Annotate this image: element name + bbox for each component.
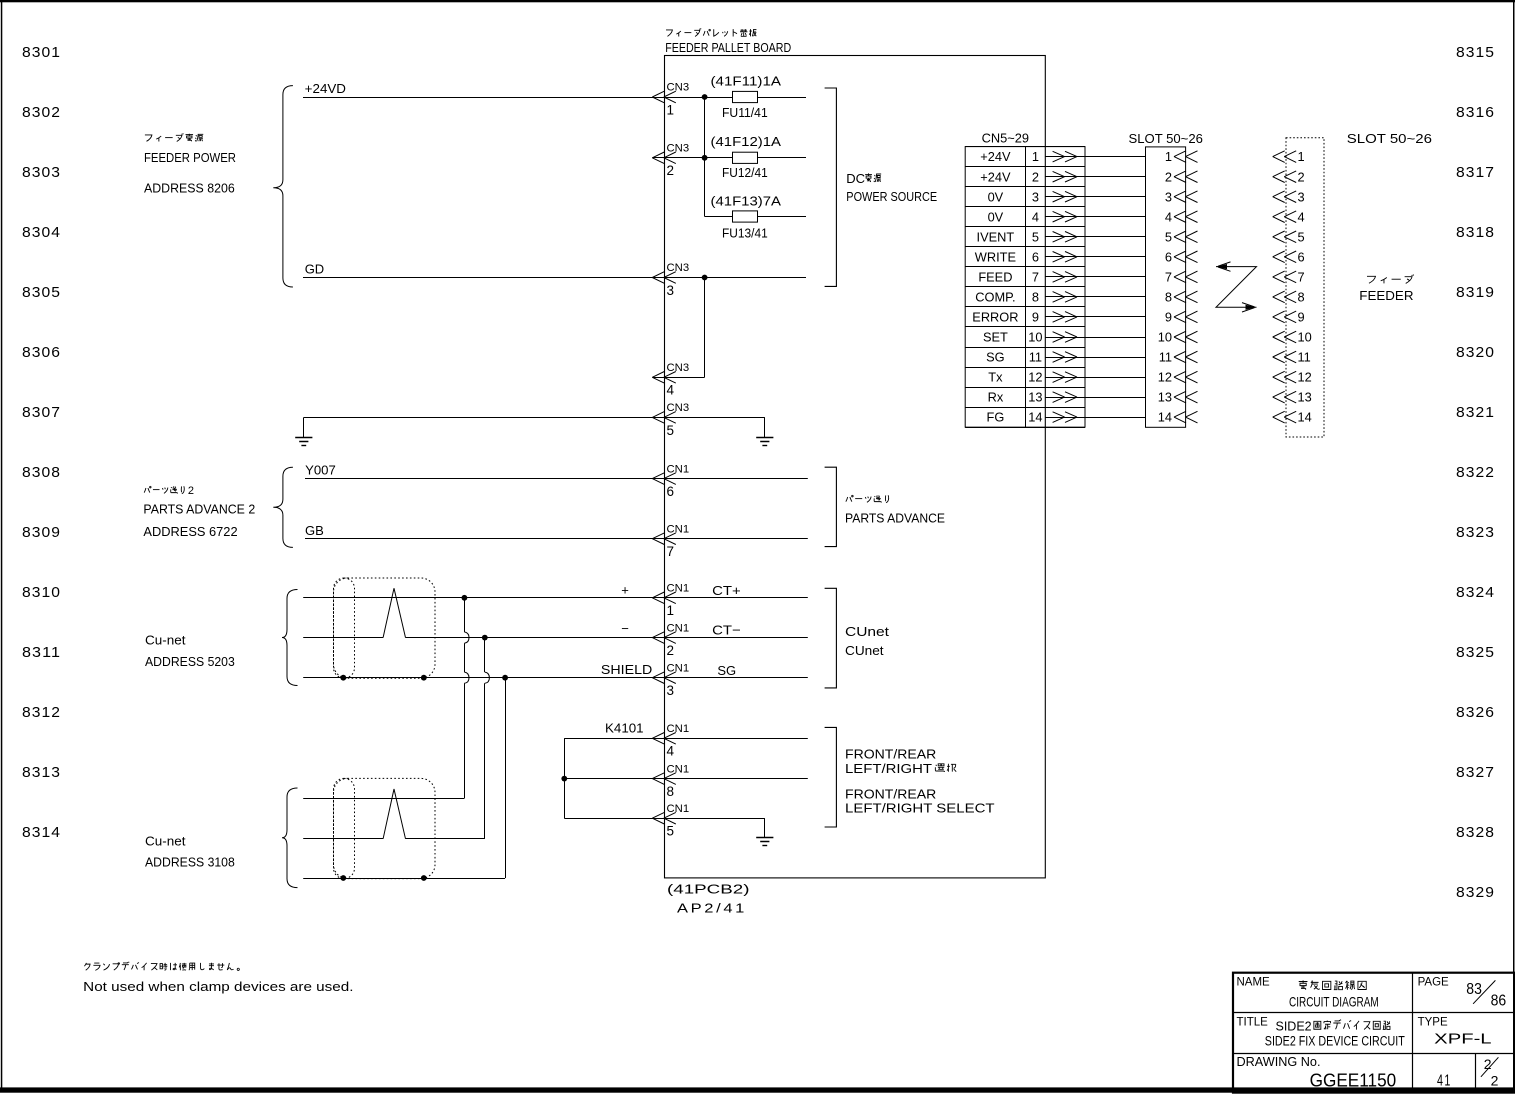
svg-text:8307: 8307: [22, 404, 61, 421]
wire Cu-net minus right segment to CN1-2: [406, 637, 808, 639]
svg-text:8321: 8321: [1456, 404, 1495, 421]
svg-text:CUnet: CUnet: [845, 643, 884, 658]
title block page 86: [1491, 993, 1507, 1010]
svg-text:CN1: CN1: [667, 662, 690, 674]
wire GD bus vertical to CN3-4: [704, 278, 706, 378]
pin number 12 CN5 table: [1028, 370, 1042, 385]
svg-text:CN1: CN1: [667, 763, 690, 775]
ground symbol inside board at CN1-5: [756, 818, 773, 845]
svg-text:1: 1: [1165, 149, 1172, 164]
svg-text:CN3: CN3: [667, 82, 690, 94]
svg-text:8: 8: [667, 784, 675, 799]
svg-text:Y007: Y007: [305, 463, 336, 478]
junction node shield upper left: [340, 675, 346, 681]
wire GD to CN3-3: [303, 277, 806, 279]
pin number 6 CN5 table: [1032, 249, 1039, 264]
svg-text:11: 11: [1298, 350, 1311, 365]
title block page 83: [1466, 981, 1482, 998]
svg-text:3: 3: [667, 283, 675, 298]
feeder slot pin 11 chevron: [1273, 351, 1297, 363]
svg-text:8324: 8324: [1456, 584, 1495, 601]
feeder slot pin 2 number: [1298, 169, 1305, 184]
svg-text:6: 6: [1298, 249, 1305, 264]
feeder slot pin 6 number: [1298, 249, 1305, 264]
svg-text:PARTS ADVANCE 2: PARTS ADVANCE 2: [143, 501, 255, 516]
fuse FU12 name label: [722, 166, 768, 180]
feeder slot pin 10 chevron: [1273, 331, 1297, 343]
svg-text:CN1: CN1: [667, 622, 690, 634]
svg-text:CN3: CN3: [667, 362, 690, 374]
svg-text:(41F12)1A: (41F12)1A: [711, 135, 782, 149]
label CN5~29: [982, 131, 1029, 146]
signal name FG row 14: [987, 410, 1005, 425]
svg-text:7: 7: [1032, 270, 1039, 285]
feeder slot pin 2 chevron: [1273, 171, 1297, 183]
feeder slot pin 7 number: [1298, 270, 1305, 285]
svg-text:8313: 8313: [22, 764, 61, 781]
border frame right: [1513, 0, 1515, 1090]
connector SLOT 50~26 feeder-side dotted box: [1286, 138, 1324, 437]
slot pin 3 number: [1165, 189, 1172, 204]
bracket parts advance: [825, 467, 837, 546]
title block name japanese: [1299, 980, 1367, 989]
svg-text:ERROR: ERROR: [972, 310, 1018, 325]
svg-text:2: 2: [1491, 1073, 1499, 1089]
border frame top: [0, 0, 1515, 2]
feeder slot pin 1 number: [1298, 149, 1305, 164]
svg-text:FEEDER: FEEDER: [1359, 288, 1413, 303]
svg-text:2: 2: [667, 643, 675, 658]
connector pin CN3-1: [652, 82, 689, 118]
slot pin 11 chevron: [1174, 351, 1198, 363]
wire bus +24V vertical: [704, 97, 706, 217]
pin number 1 CN5 table: [1032, 149, 1039, 164]
svg-text:4: 4: [1298, 209, 1305, 224]
label ADDRESS 5203: [145, 654, 235, 669]
svg-text:8320: 8320: [1456, 344, 1495, 361]
svg-text:5: 5: [1165, 229, 1172, 244]
svg-text:CIRCUIT DIAGRAM: CIRCUIT DIAGRAM: [1289, 994, 1379, 1010]
svg-text:FU13/41: FU13/41: [722, 227, 768, 241]
svg-text:CT−: CT−: [712, 623, 741, 638]
wire CN5 row 10 with output arrow: [1045, 332, 1145, 343]
title block title japanese: [1276, 1020, 1390, 1034]
svg-text:8308: 8308: [22, 464, 61, 481]
connector SLOT 50~26 board-side box: [1146, 147, 1186, 427]
svg-text:TYPE: TYPE: [1418, 1016, 1448, 1028]
svg-text:CN5~29: CN5~29: [982, 131, 1029, 146]
wire Cu-net minus left segment: [303, 637, 383, 639]
pin number 5 CN5 table: [1032, 229, 1039, 244]
svg-text:GGEE1150: GGEE1150: [1310, 1070, 1397, 1090]
svg-text:8310: 8310: [22, 584, 61, 601]
slot pin 10 number: [1158, 330, 1172, 345]
svg-text:0V: 0V: [988, 209, 1004, 224]
wire Cu-net lower minus right: [406, 838, 485, 840]
wire CN5 row 14 with output arrow: [1045, 412, 1145, 423]
svg-text:FU12/41: FU12/41: [722, 166, 768, 180]
feeder slot pin 8 number: [1298, 290, 1305, 305]
svg-text:8317: 8317: [1456, 164, 1495, 181]
svg-text:11: 11: [1159, 350, 1172, 365]
feeder slot pin 3 number: [1298, 189, 1305, 204]
board title japanese: [666, 28, 756, 36]
title block SIDE2 FIX DEVICE CIRCUIT: [1265, 1033, 1405, 1048]
cable shield symbol upper: [334, 578, 436, 678]
note english clamp devices: [83, 980, 353, 994]
svg-text:DC: DC: [846, 171, 865, 186]
svg-text:Cu-net: Cu-net: [145, 833, 186, 848]
wire CN5 row 5 with output arrow: [1045, 232, 1145, 243]
svg-text:5: 5: [1032, 229, 1039, 244]
label SHIELD: [601, 662, 652, 677]
svg-text:FU11/41: FU11/41: [722, 106, 768, 120]
wire CN5 row 13 with output arrow: [1045, 392, 1145, 403]
label Cu-net lower: [145, 833, 186, 848]
feeder slot pin 12 chevron: [1273, 371, 1297, 383]
wire Cu-net lower plus: [303, 798, 464, 800]
svg-text:12: 12: [1158, 370, 1172, 385]
slot pin 13 number: [1158, 390, 1172, 405]
svg-text:8: 8: [1165, 290, 1172, 305]
wire Cu-net lower minus left: [303, 838, 383, 840]
slot pin 9 chevron: [1174, 311, 1198, 323]
connector pin CN1-2: [652, 622, 689, 658]
svg-text:FEED: FEED: [978, 270, 1012, 285]
slot pin 1 chevron: [1174, 151, 1198, 163]
svg-text:SHIELD: SHIELD: [601, 662, 652, 677]
label Y007: [305, 463, 336, 478]
twisted pair symbol lower: [383, 789, 405, 839]
title block TITLE label: [1237, 1016, 1269, 1028]
signal name Tx row 12: [988, 370, 1003, 385]
junction node pin3 GD: [702, 275, 708, 281]
bracket front/rear select: [825, 727, 837, 827]
svg-text:6: 6: [1165, 249, 1172, 264]
connector pin CN3-2: [652, 143, 689, 179]
slot pin 5 number: [1165, 229, 1172, 244]
pin number 2 CN5 table: [1032, 169, 1039, 184]
svg-text:SLOT 50~26: SLOT 50~26: [1129, 131, 1203, 146]
svg-text:CN1: CN1: [667, 523, 690, 535]
svg-text:14: 14: [1028, 410, 1042, 425]
svg-text:PARTS ADVANCE: PARTS ADVANCE: [845, 511, 945, 526]
wire Cu-net plus to CN1-1: [303, 597, 808, 599]
label CT+: [712, 583, 741, 598]
label ADDRESS 8206: [144, 180, 235, 195]
svg-text:8327: 8327: [1456, 764, 1495, 781]
title block CIRCUIT DIAGRAM: [1289, 994, 1379, 1010]
signal name COMP. row 8: [975, 290, 1015, 305]
svg-text:4: 4: [1032, 209, 1039, 224]
svg-text:2: 2: [1298, 169, 1305, 184]
title block sheet fraction slash: [1481, 1057, 1499, 1077]
svg-text:4: 4: [667, 744, 675, 759]
left margin line numbers 8301-8314: [22, 44, 61, 841]
svg-text:8303: 8303: [22, 164, 61, 181]
link arrow between slots: [1216, 262, 1257, 312]
bracket DC power source: [825, 88, 837, 286]
svg-text:DRAWING No.: DRAWING No.: [1237, 1054, 1321, 1069]
label + on CT plus wire: [621, 582, 629, 597]
svg-text:2: 2: [1165, 169, 1172, 184]
svg-text:10: 10: [1298, 330, 1312, 345]
svg-text:10: 10: [1028, 330, 1042, 345]
wire to CN1-5: [564, 818, 765, 820]
svg-text:7: 7: [1165, 270, 1172, 285]
svg-text:FEEDER PALLET BOARD: FEEDER PALLET BOARD: [665, 40, 791, 55]
svg-text:8316: 8316: [1456, 104, 1495, 121]
svg-text:8312: 8312: [22, 704, 61, 721]
svg-text:8314: 8314: [22, 824, 61, 841]
svg-text:0V: 0V: [988, 189, 1004, 204]
pin number 13 CN5 table: [1028, 390, 1042, 405]
svg-text:FG: FG: [987, 410, 1005, 425]
svg-text:PAGE: PAGE: [1418, 977, 1449, 989]
svg-text:8306: 8306: [22, 344, 61, 361]
label FEEDER: [1359, 288, 1413, 303]
slot pin 11 number: [1159, 350, 1172, 365]
label feeder japanese: [1367, 275, 1414, 284]
wire K4101 vertical link: [564, 738, 566, 818]
wire CN5 row 11 with output arrow: [1045, 352, 1145, 363]
wire +24VD to CN3-1 and fuse FU11: [303, 97, 733, 99]
pin number 3 CN5 table: [1032, 189, 1039, 204]
svg-text:(41F11)1A: (41F11)1A: [711, 75, 782, 89]
svg-text:ADDRESS 3108: ADDRESS 3108: [145, 854, 235, 869]
slot pin 6 number: [1165, 249, 1172, 264]
pin number 14 CN5 table: [1028, 410, 1042, 425]
title block PAGE label: [1418, 977, 1449, 989]
svg-text:CN1: CN1: [667, 803, 690, 815]
feeder slot pin 8 chevron: [1273, 291, 1297, 303]
svg-text:SIDE2: SIDE2: [1276, 1020, 1312, 1034]
svg-text:14: 14: [1298, 410, 1312, 425]
wire SHIELD to CN1-3: [303, 677, 808, 679]
pin number 11 CN5 table: [1029, 350, 1042, 365]
fuse FU11 value label: [711, 75, 782, 89]
svg-text:2: 2: [188, 485, 194, 497]
signal name 0V row 3: [988, 189, 1004, 204]
svg-text:(41F13)7A: (41F13)7A: [711, 195, 782, 209]
svg-text:8302: 8302: [22, 104, 61, 121]
signal name IVENT row 5: [977, 229, 1015, 244]
svg-text:1: 1: [667, 603, 675, 618]
label ADDRESS 3108: [145, 854, 235, 869]
wire Cu-net lower shield: [303, 878, 505, 880]
svg-text:1: 1: [667, 102, 675, 117]
label LEFT/RIGHT sentaku: [845, 761, 956, 776]
svg-text:SG: SG: [717, 663, 736, 678]
svg-text:AP2/41: AP2/41: [677, 902, 747, 916]
wire CN3-4 stub: [652, 377, 704, 379]
right margin line numbers 8315-8329: [1456, 44, 1495, 901]
wire hop v1 over shield wire: [464, 672, 469, 683]
slot pin 5 chevron: [1174, 231, 1198, 243]
svg-text:6: 6: [1032, 249, 1039, 264]
signal name SG row 11: [986, 350, 1005, 365]
slot pin 12 chevron: [1174, 371, 1198, 383]
slot pin 7 number: [1165, 270, 1172, 285]
svg-text:8: 8: [1032, 290, 1039, 305]
svg-text:8329: 8329: [1456, 884, 1495, 901]
pin number 10 CN5 table: [1028, 330, 1042, 345]
pin number 8 CN5 table: [1032, 290, 1039, 305]
svg-text:13: 13: [1028, 390, 1042, 405]
svg-text:12: 12: [1028, 370, 1042, 385]
svg-text:7: 7: [667, 544, 675, 559]
bracket CUnet: [825, 588, 837, 688]
feeder slot pin 3 chevron: [1273, 191, 1297, 203]
svg-text:CN3: CN3: [667, 143, 690, 155]
junction node pin1 bus: [702, 94, 708, 100]
wire CN5 row 2 with output arrow: [1045, 171, 1145, 182]
svg-text:8: 8: [1298, 290, 1305, 305]
connector pin CN1-1: [652, 583, 689, 619]
label PARTS ADVANCE 2: [143, 501, 255, 516]
signal name Rx row 13: [988, 390, 1004, 405]
feeder slot pin 13 number: [1298, 390, 1312, 405]
svg-text:+24V: +24V: [980, 149, 1011, 164]
label PARTS ADVANCE: [845, 511, 945, 526]
slot pin 2 number: [1165, 169, 1172, 184]
svg-text:LEFT/RIGHT SELECT: LEFT/RIGHT SELECT: [845, 801, 995, 816]
svg-text:XPF-L: XPF-L: [1434, 1031, 1491, 1048]
svg-text:8326: 8326: [1456, 704, 1495, 721]
brace feeder power group: [273, 86, 293, 287]
connector pin CN1-3: [652, 662, 689, 698]
svg-text:CN3: CN3: [667, 402, 690, 414]
ground symbol inside board at CN3-5: [756, 417, 773, 445]
signal name +24V row 2: [980, 169, 1011, 184]
svg-text:ADDRESS 8206: ADDRESS 8206: [144, 180, 235, 195]
connector pin CN1-4: [652, 723, 689, 759]
svg-text:IVENT: IVENT: [977, 229, 1015, 244]
wire CN3-2 to fuse FU12: [652, 157, 732, 159]
connector pin CN1-5: [652, 803, 689, 839]
svg-text:K4101: K4101: [605, 720, 644, 735]
svg-text:(41PCB2): (41PCB2): [667, 883, 750, 897]
wire fuse FU11 output: [758, 97, 807, 99]
slot pin 7 chevron: [1174, 271, 1198, 283]
svg-text:ADDRESS 5203: ADDRESS 5203: [145, 654, 235, 669]
svg-text:8319: 8319: [1456, 284, 1495, 301]
slot pin 9 number: [1165, 310, 1172, 325]
junction node shield upper right: [421, 675, 427, 681]
svg-text:8318: 8318: [1456, 224, 1495, 241]
feeder slot pin 6 chevron: [1273, 251, 1297, 263]
wire fuse FU13 output: [758, 216, 807, 218]
label SLOT 50~26 left: [1129, 131, 1203, 146]
svg-text:SLOT 50~26: SLOT 50~26: [1347, 131, 1432, 146]
svg-text:8311: 8311: [22, 644, 61, 661]
svg-text:GD: GD: [305, 262, 325, 277]
fuse FU13 value label: [711, 195, 782, 209]
slot pin 13 chevron: [1174, 391, 1198, 403]
signal name 0V row 4: [988, 209, 1004, 224]
signal name WRITE row 6: [975, 249, 1016, 264]
svg-text:8322: 8322: [1456, 464, 1495, 481]
svg-text:86: 86: [1491, 993, 1507, 1010]
feeder slot pin 7 chevron: [1273, 271, 1297, 283]
fuse FU13/41 (41F13)7A: [733, 211, 758, 222]
title block sheet 2 upper: [1484, 1056, 1492, 1072]
pin number 9 CN5 table: [1032, 310, 1039, 325]
junction node pin2 bus: [702, 155, 708, 161]
slot pin 2 chevron: [1174, 171, 1198, 183]
svg-text:SIDE2 FIX DEVICE CIRCUIT: SIDE2 FIX DEVICE CIRCUIT: [1265, 1033, 1405, 1048]
wire CN5 row 6 with output arrow: [1045, 252, 1145, 263]
svg-text:CT+: CT+: [712, 583, 741, 598]
label minus on CT minus wire: [621, 621, 629, 636]
slot pin 3 chevron: [1174, 191, 1198, 203]
wire to CN1-8: [564, 778, 808, 780]
wire CN5 row 7 with output arrow: [1045, 272, 1145, 283]
svg-text:6: 6: [667, 484, 675, 499]
svg-text:COMP.: COMP.: [975, 290, 1015, 305]
fuse FU12 value label: [711, 135, 782, 149]
svg-text:5: 5: [667, 423, 675, 438]
title block frame: [1233, 973, 1515, 1093]
connector pin CN3-4: [652, 362, 689, 398]
feeder slot pin 11 number: [1298, 350, 1311, 365]
slot pin 4 chevron: [1174, 211, 1198, 223]
connector table CN5~29 grid: [965, 147, 1085, 428]
wire K4101 to CN1-4: [564, 738, 808, 740]
slot pin 14 chevron: [1174, 411, 1198, 423]
border frame bottom: [0, 1087, 1515, 1092]
svg-text:8328: 8328: [1456, 824, 1495, 841]
connector pin CN3-5: [652, 402, 689, 438]
label FRONT/REAR 2: [845, 786, 936, 801]
svg-text:8315: 8315: [1456, 44, 1495, 61]
svg-text:3: 3: [667, 683, 675, 698]
svg-text:ADDRESS 6722: ADDRESS 6722: [143, 524, 237, 539]
wire hop v2 over shield wire: [485, 672, 490, 683]
twisted pair symbol upper: [383, 588, 405, 637]
svg-text:12: 12: [1298, 370, 1312, 385]
svg-text:4: 4: [667, 383, 675, 398]
svg-text:CN1: CN1: [667, 583, 690, 595]
svg-text:3: 3: [1165, 189, 1172, 204]
svg-text:41: 41: [1437, 1072, 1452, 1089]
feeder slot pin 9 number: [1298, 310, 1305, 325]
slot pin 14 number: [1158, 410, 1172, 425]
svg-text:FRONT/REAR: FRONT/REAR: [845, 747, 936, 762]
feeder slot pin 4 chevron: [1273, 211, 1297, 223]
feeder slot pin 1 chevron: [1273, 151, 1297, 163]
wire CN5 row 4 with output arrow: [1045, 211, 1145, 222]
wire vertical link CT- to lower: [484, 638, 486, 839]
label Cu-net upper: [145, 632, 186, 647]
feeder slot pin 9 chevron: [1273, 311, 1297, 323]
svg-text:SG: SG: [986, 350, 1005, 365]
board ref label (41PCB2): [667, 883, 750, 897]
wire frame-ground to CN3-5: [304, 417, 765, 419]
svg-text:4: 4: [1165, 209, 1172, 224]
label CUnet line1: [845, 624, 889, 639]
pin number 7 CN5 table: [1032, 270, 1039, 285]
svg-text:SET: SET: [983, 330, 1008, 345]
label +24VD: [305, 81, 346, 96]
title block TYPE label: [1418, 1016, 1448, 1028]
svg-text:CN1: CN1: [667, 463, 690, 475]
label FRONT/REAR 1: [845, 747, 936, 762]
junction node CT- tap: [482, 635, 488, 641]
title block DRAWING No. label: [1237, 1054, 1321, 1069]
signal name +24V row 1: [980, 149, 1011, 164]
svg-text:Rx: Rx: [988, 390, 1004, 405]
